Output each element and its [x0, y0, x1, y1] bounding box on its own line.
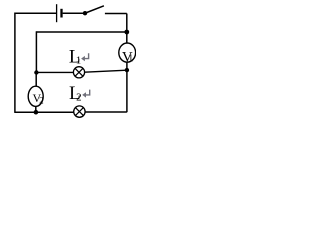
wire inner left vertical (to node C)	[35, 31, 37, 72]
svg-text:1: 1	[76, 55, 82, 67]
label L2	[69, 83, 82, 104]
voltmeter V2	[28, 86, 43, 106]
switch S (pivot dot + open arm)	[83, 6, 104, 16]
node C (junction dot, L1 branch meets V2 branch)	[34, 70, 38, 74]
lamp L2 (circle with cross)	[74, 106, 85, 117]
wire bottom-left (corner to node D to lamp L2)	[15, 111, 74, 113]
wire outer left vertical	[14, 13, 16, 113]
wire top-left horizontal (battery feed)	[15, 12, 56, 14]
label L1	[69, 47, 81, 68]
pilcrow arrow after L2	[82, 90, 90, 98]
wire battery to switch	[63, 12, 84, 14]
node A (junction dot, inner top wire meets right rail)	[124, 30, 129, 35]
svg-text:2: 2	[76, 92, 82, 104]
svg-text:2: 2	[39, 96, 44, 106]
svg-text:1: 1	[128, 54, 133, 65]
battery cell	[57, 4, 62, 22]
wire inner top horizontal	[36, 31, 126, 33]
wire switch to top-right corner	[105, 13, 127, 15]
wire V1 bottom to node B	[126, 62, 128, 70]
wire node A down to voltmeter V1	[126, 32, 128, 43]
wire V2 branch (node C down to voltmeter V2)	[35, 73, 37, 87]
voltmeter V1	[119, 43, 136, 66]
pilcrow arrow after L1	[81, 53, 89, 61]
wire right vertical lower (node B to bottom-right corner)	[126, 70, 128, 112]
wire lamp L2 to bottom-right corner	[85, 111, 127, 113]
wire lamp L1 to node B	[85, 70, 127, 72]
wire V2 bottom to node D	[35, 106, 37, 112]
node B (junction dot, lamp row meets right rail)	[125, 68, 129, 72]
node D (junction dot on bottom wire)	[34, 110, 39, 115]
wire right vertical upper (corner down to node A)	[126, 14, 128, 33]
lamp L1 (circle with cross)	[73, 67, 84, 78]
wire node C to lamp L1	[36, 71, 73, 73]
